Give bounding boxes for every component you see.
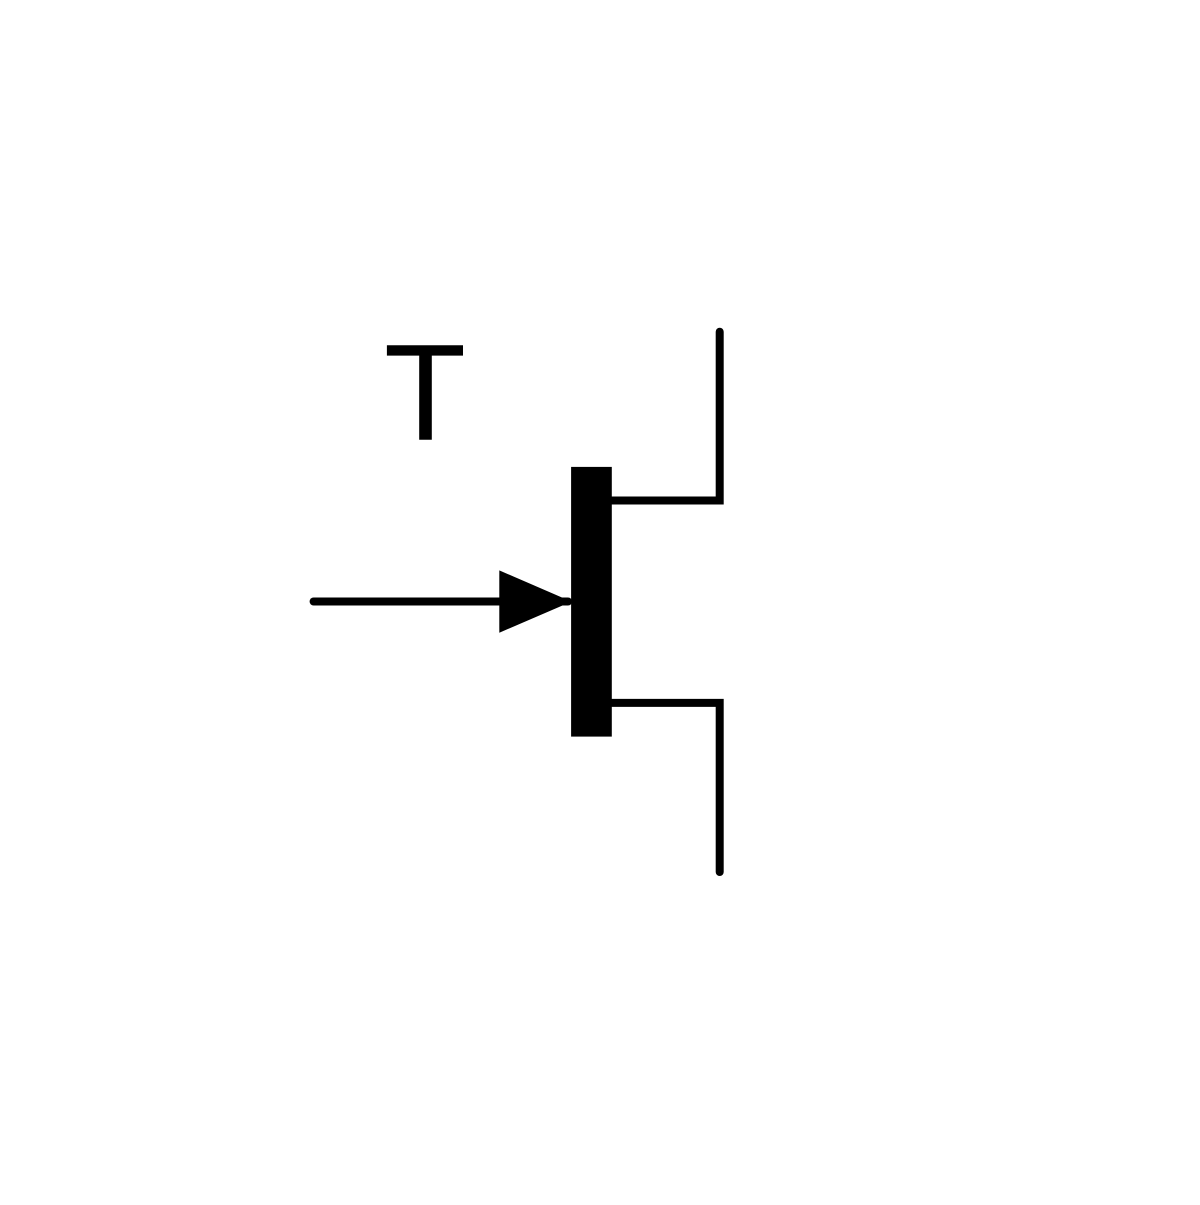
label T — [387, 345, 463, 440]
wire base lead (left horizontal) — [314, 598, 568, 606]
wire emitter lead (bottom) — [612, 703, 720, 872]
transistor T base bar — [571, 467, 612, 737]
transistor T emitter arrowhead — [499, 570, 571, 632]
wire collector lead (top) — [612, 332, 720, 501]
